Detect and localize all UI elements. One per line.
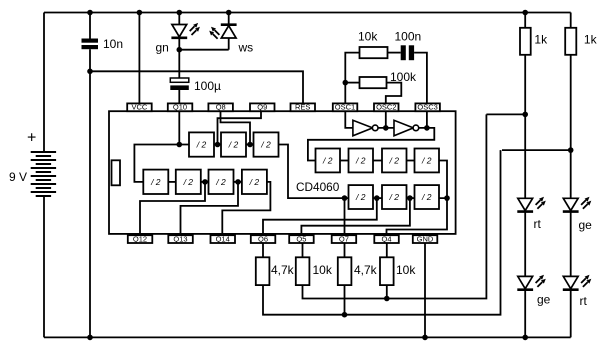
svg-text:RES: RES	[295, 103, 310, 112]
svg-text:gn: gn	[156, 41, 169, 55]
svg-text:Q6: Q6	[258, 234, 268, 243]
wire A4 out down to row B	[439, 161, 447, 199]
svg-text:Q13: Q13	[173, 234, 187, 243]
left edge box	[112, 160, 121, 185]
svg-text:+: +	[27, 130, 36, 147]
divider L2d	[242, 170, 267, 194]
node OSC3/U1b out	[424, 125, 430, 131]
pin GND	[413, 234, 438, 243]
resistor R osc 10k	[360, 47, 388, 58]
node L1 Q8 tap	[247, 142, 253, 148]
svg-text:/ 2: / 2	[355, 156, 366, 166]
svg-text:OSC3: OSC3	[417, 103, 437, 112]
LED D2 ws	[209, 10, 236, 50]
wire Q6 route	[263, 198, 377, 235]
svg-text:/ 2: / 2	[228, 140, 239, 150]
pin Q7	[332, 234, 357, 243]
svg-text:100n: 100n	[395, 29, 422, 43]
pin Q10	[168, 103, 193, 112]
wire A1-A2	[340, 160, 349, 162]
node B chain Q7 tap	[342, 195, 348, 201]
wire A2-A3	[373, 160, 382, 162]
wire U1b out to divider chain A	[308, 128, 434, 161]
wire RES rail to RES pin	[90, 71, 303, 103]
divider L1a	[189, 132, 214, 156]
svg-text:ge: ge	[579, 218, 593, 232]
resistor R1 1k	[520, 28, 531, 55]
svg-text:rt: rt	[534, 217, 542, 231]
wire OSC1 node to 100k	[345, 82, 359, 84]
wire battery to bottom rail	[43, 196, 45, 337]
node C1/0V rail	[87, 335, 93, 341]
node LED col1 bottom	[522, 335, 528, 341]
svg-text:/ 2: / 2	[421, 192, 432, 202]
wire Q5 pin to R4	[302, 243, 304, 257]
svg-text:10k: 10k	[396, 263, 416, 277]
wire col2 feed from resistor bus	[502, 149, 571, 151]
wire L2c-L2d	[234, 181, 242, 183]
pin Q5	[289, 234, 314, 243]
capacitor C3 100u wire from LED junction	[178, 50, 180, 78]
node L2 Q12 tap	[202, 179, 208, 185]
wire B2-B1	[373, 197, 382, 199]
svg-text:Q8: Q8	[216, 103, 226, 112]
divider B3	[415, 185, 440, 209]
node L1 Q10 tap	[177, 142, 183, 148]
svg-text:OSC1: OSC1	[335, 103, 355, 112]
svg-text:rt: rt	[580, 294, 588, 308]
pin Q8	[208, 103, 233, 112]
pin Q4	[374, 234, 399, 243]
pin Q9	[250, 103, 275, 112]
svg-text:ws: ws	[238, 41, 254, 55]
node B chain Q5 tap	[407, 195, 413, 201]
svg-text:VCC: VCC	[131, 103, 147, 112]
LED D5 ge col1	[517, 275, 546, 290]
divider L2c	[209, 170, 234, 194]
svg-text:GND: GND	[417, 234, 434, 243]
svg-text:Q7: Q7	[339, 234, 349, 243]
wire rail corner to R2	[570, 13, 572, 28]
wire Q10 pin to L1 chain	[178, 111, 180, 144]
wire OSC1 into inverter U1a	[345, 111, 353, 128]
wire Q13 route	[181, 182, 239, 235]
svg-text:4,7k: 4,7k	[354, 263, 378, 277]
pin Q14	[211, 234, 236, 243]
svg-text:/ 2: / 2	[322, 156, 333, 166]
divider L2b	[176, 170, 201, 194]
resistor R6 10k	[380, 257, 394, 285]
wire R5 to 4,7k bus	[344, 285, 346, 315]
wire 100k to OSC2	[386, 83, 402, 104]
svg-text:Q9: Q9	[257, 103, 267, 112]
wire Q12 route	[140, 182, 205, 235]
svg-text:/ 2: / 2	[196, 140, 207, 150]
wire GND pin to 0V rail	[424, 243, 426, 337]
wire C3 to Q10 pin	[178, 90, 180, 103]
wire VCC pin to +9V rail	[138, 13, 140, 104]
inverter U1b	[394, 120, 419, 136]
svg-text:9 V: 9 V	[9, 170, 27, 184]
wire L1a out to row L2	[134, 145, 189, 182]
capacitor C3 100u	[170, 78, 189, 82]
svg-text:1k: 1k	[584, 33, 598, 47]
node rail/R1	[522, 10, 528, 16]
wire left supply from rail to battery	[43, 13, 45, 153]
LED D1 gn	[171, 10, 200, 50]
node R6/bus	[384, 296, 390, 302]
wire OSC1 riser to 10k	[345, 53, 359, 104]
svg-text:/ 2: / 2	[249, 177, 260, 187]
pin RES	[291, 103, 316, 112]
wire C1 bottom down to 0V rail	[89, 49, 91, 337]
node GND/0V rail	[422, 335, 428, 341]
svg-text:100µ: 100µ	[194, 79, 221, 93]
node B chain Q4 tap	[444, 195, 450, 201]
wire L2a-L2b	[168, 181, 176, 183]
wire Q4 pin to R6	[386, 243, 388, 257]
LED D4 ge col2	[563, 197, 592, 212]
wire B1 out to left group	[279, 145, 349, 199]
divider A2	[349, 149, 374, 173]
wire 4,7k bus to LED col2	[263, 150, 501, 315]
wire R6 to 10k bus	[386, 285, 388, 298]
wire L2d out to Q14	[222, 182, 270, 235]
divider L2a	[143, 170, 168, 194]
battery BT1 9V	[31, 152, 56, 196]
pin OSC2	[374, 103, 399, 112]
svg-text:10k: 10k	[358, 29, 378, 43]
resistor R4 10k	[296, 257, 310, 285]
divider L1b	[221, 132, 246, 156]
wire top +9V rail	[44, 12, 571, 14]
pin VCC	[127, 103, 152, 112]
node gn/ws junction	[177, 47, 183, 53]
wire rail to R1	[524, 13, 526, 28]
divider B2	[382, 185, 407, 209]
svg-text:/ 2: / 2	[183, 177, 194, 187]
resistor R2 1k	[565, 28, 576, 55]
svg-text:ge: ge	[537, 293, 551, 307]
svg-text:1k: 1k	[534, 33, 548, 47]
svg-text:10n: 10n	[103, 37, 123, 51]
wire U1a out to U1b in	[378, 127, 394, 129]
wire col1 feed from resistor bus	[486, 113, 525, 115]
svg-text:Q4: Q4	[381, 234, 391, 243]
svg-text:Q12: Q12	[133, 234, 147, 243]
divider A3	[382, 149, 407, 173]
resistor R osc 100k	[360, 77, 387, 88]
divider B1	[349, 185, 374, 209]
node rail/VCC	[137, 10, 143, 16]
wire L1b-L1a	[214, 144, 221, 146]
svg-text:/ 2: / 2	[421, 156, 432, 166]
divider A4	[415, 149, 440, 173]
LED D3 rt col1	[517, 197, 546, 212]
wire L1c-L1b	[246, 144, 254, 146]
pin Q6	[251, 234, 275, 243]
wire 10k to 100n	[388, 52, 401, 54]
wire OSC3 down to U1b out	[426, 111, 428, 128]
capacitor C2 100n	[401, 45, 414, 60]
svg-text:OSC2: OSC2	[376, 103, 396, 112]
wire Q7 pin to R5	[344, 243, 346, 257]
svg-text:/ 2: / 2	[150, 177, 161, 187]
node OSC1/100k	[343, 80, 349, 86]
divider L1c	[254, 132, 279, 156]
divider A1	[316, 149, 341, 173]
node OSC2/U1a out	[383, 125, 389, 131]
svg-text:/ 2: / 2	[388, 192, 399, 202]
capacitor C1 10n top wire	[89, 13, 91, 39]
node L1 Q9 tap	[215, 142, 221, 148]
svg-text:/ 2: / 2	[260, 140, 271, 150]
node L2 Q13 tap	[235, 179, 241, 185]
wire L2b-L2c	[201, 181, 209, 183]
wire Q9 pin step to L1	[218, 111, 262, 144]
svg-text:/ 2: / 2	[388, 156, 399, 166]
node B chain Q6 tap	[374, 195, 380, 201]
svg-text:CD4060: CD4060	[296, 180, 340, 194]
capacitor C1 10n	[82, 39, 99, 50]
wire Q7 route	[344, 198, 346, 235]
svg-text:Q14: Q14	[216, 234, 230, 243]
pin Q12	[128, 234, 153, 243]
LED column 2 wire	[570, 55, 572, 338]
wire bottom 0V rail	[44, 336, 571, 338]
node C1/RES rail	[87, 69, 93, 75]
pin Q13	[168, 234, 193, 243]
svg-text:/ 2: / 2	[215, 177, 226, 187]
wire Q4 route	[387, 198, 448, 235]
svg-text:Q5: Q5	[296, 234, 306, 243]
inverter U1a	[353, 120, 378, 136]
svg-text:Q10: Q10	[173, 103, 187, 112]
svg-text:/ 2: / 2	[355, 192, 366, 202]
svg-text:4,7k: 4,7k	[271, 263, 295, 277]
pin OSC3	[415, 103, 440, 112]
pin OSC1	[333, 103, 358, 112]
resistor R3 4,7k	[256, 257, 270, 285]
wire 100n to OSC3	[414, 53, 427, 104]
resistor R5 4,7k	[338, 257, 352, 285]
wire B3-B2	[407, 197, 415, 199]
node LED col2 feed	[568, 147, 574, 153]
wire gn cathode to ws cathode	[179, 49, 228, 51]
node LED col1 feed	[522, 112, 528, 118]
wire Q5 route	[301, 198, 410, 235]
wire 10k bus to LED col1	[303, 114, 487, 298]
wire Q8 pin step to L1	[221, 111, 251, 144]
wire Q6 pin to R3	[262, 243, 264, 257]
wire OSC2 down to U1a out	[385, 111, 387, 128]
node R5/bus	[342, 312, 348, 318]
node top rail / C1	[87, 10, 93, 16]
LED column 1 wire	[524, 55, 526, 338]
LED D6 rt col2	[563, 275, 592, 290]
wire A3-A4	[407, 160, 415, 162]
IC U1 CD4060 body	[109, 111, 456, 234]
svg-text:10k: 10k	[313, 263, 333, 277]
